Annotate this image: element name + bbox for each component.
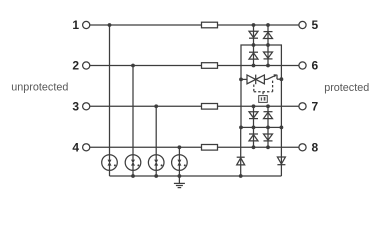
wire branch3 vertical	[155, 106, 157, 155]
terminal 4	[72, 141, 89, 155]
wire ground bus	[110, 175, 282, 177]
surge arrester F4	[172, 155, 188, 171]
surge arrester F2	[125, 155, 141, 171]
diode D3 (cathode up)	[249, 52, 258, 59]
node bus-F3	[154, 174, 158, 178]
svg-text:unprotected: unprotected	[11, 81, 68, 93]
node row1 branch left	[252, 23, 256, 27]
wire row1 right	[218, 24, 299, 26]
ground	[174, 176, 185, 188]
terminal 8	[299, 141, 319, 155]
svg-text:1: 1	[72, 18, 79, 32]
node boxbottom branch right	[266, 126, 270, 130]
wire diode branch left (rows1-2)	[253, 25, 255, 66]
wire diode branch right (rows1-2)	[267, 25, 269, 66]
resistor R3	[202, 104, 218, 110]
svg-text:protected: protected	[324, 82, 369, 94]
node bus-F4	[178, 174, 182, 178]
diode D2 (cathode up)	[264, 32, 273, 39]
node boxbottom branch left	[252, 126, 256, 130]
node row2-branch2	[131, 64, 135, 68]
dashed linkage to indicator	[254, 81, 273, 96]
node boxtop branch left	[252, 43, 256, 47]
failure indicator	[259, 96, 268, 103]
wire diode branch left (rows3-4)	[253, 106, 255, 147]
surge arrester F3	[148, 155, 164, 171]
node boxbottom left corner	[239, 126, 243, 130]
resistor R4	[202, 145, 218, 151]
node bus-D9	[239, 174, 243, 178]
wire row4 left	[90, 146, 202, 148]
svg-text:8: 8	[312, 141, 319, 155]
wire row2 right	[218, 65, 299, 67]
node row3 branch right	[266, 104, 270, 108]
resistor R2	[202, 63, 218, 69]
TVS suppressor (bowtie)	[241, 75, 264, 85]
svg-text:6: 6	[312, 59, 319, 73]
wire branch1 vertical	[109, 25, 111, 155]
node row1 branch right	[266, 23, 270, 27]
terminal 3	[72, 100, 89, 114]
thermal disconnect switch	[264, 74, 281, 79]
terminal 1	[72, 18, 89, 32]
node row4-branch4	[178, 145, 182, 149]
node switch-box edge	[280, 77, 284, 81]
node bus-F2	[131, 174, 135, 178]
svg-text:5: 5	[312, 18, 319, 32]
terminal 7	[299, 100, 319, 114]
node boxtop branch right	[266, 43, 270, 47]
svg-text:7: 7	[312, 100, 319, 114]
diode D4 (cathode down)	[264, 52, 273, 59]
terminal 5	[299, 18, 319, 32]
node row4 branch left	[252, 145, 256, 149]
terminal 2	[72, 59, 89, 73]
wire branch2 vertical	[132, 66, 134, 155]
protection module box U1	[241, 45, 281, 127]
diode D5 (cathode down)	[249, 112, 258, 119]
wire row3 right	[218, 105, 299, 107]
wire row4 right	[218, 146, 299, 148]
wire right vertical below box	[280, 127, 282, 176]
diode D7 (cathode up)	[249, 134, 258, 141]
node boxbottom right corner	[280, 126, 284, 130]
diode D10 (cathode down)	[277, 157, 285, 165]
diode D8 (cathode down)	[264, 134, 273, 141]
svg-text:2: 2	[72, 59, 79, 73]
wire row3 left	[90, 105, 202, 107]
svg-text:3: 3	[72, 100, 79, 114]
diode D1 (cathode down)	[249, 31, 258, 38]
resistor R1	[202, 22, 218, 28]
diode D9 (cathode up)	[237, 157, 245, 165]
svg-text:4: 4	[72, 141, 79, 155]
wire left vertical below box	[240, 127, 242, 176]
node row3 branch left	[252, 104, 256, 108]
node row2 branch right	[266, 64, 270, 68]
surge arrester F1	[102, 155, 118, 171]
wire diode branch right (rows3-4)	[267, 106, 269, 147]
node bowtie-box edge	[239, 78, 243, 82]
terminal 6	[299, 59, 319, 73]
wire arrester stubs to bus	[109, 170, 111, 176]
node row2 branch left	[252, 64, 256, 68]
wire row1 left	[90, 24, 202, 26]
wire branch4 vertical	[178, 147, 180, 155]
diode D6 (cathode up)	[264, 112, 273, 119]
wire row2 left	[90, 65, 202, 67]
node row3-branch3	[154, 104, 158, 108]
node row1-branch1	[108, 23, 112, 27]
node row4 branch right	[266, 145, 270, 149]
